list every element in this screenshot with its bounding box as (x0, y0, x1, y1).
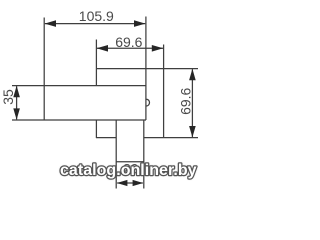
arrow left of 69.6 top (97, 45, 108, 52)
wall plate square: bottom edge left segment (96, 137, 116, 139)
arm: right edge + extension line above (145, 17, 147, 121)
arrow right of 69.6 top (152, 45, 163, 52)
arm: bottom edge + left extension line (12, 119, 146, 121)
knob bump on arm right edge (146, 99, 149, 106)
dimension line 69.6 right (191, 69, 193, 137)
spout: bottom edge (116, 161, 144, 163)
arrow down of 69.6 right (189, 126, 196, 137)
arrow left of 105.9 (45, 20, 56, 27)
dimension line 69.6 top (97, 47, 163, 49)
arrow right of 29 bottom (133, 180, 144, 186)
arm: top edge + left extension line (12, 85, 146, 87)
watermark catalog.onliner.by (60, 162, 197, 179)
svg-text:105.9: 105.9 (79, 8, 114, 24)
arrow up of 69.6 right (189, 69, 196, 80)
wall plate square: right edge + extension line above (163, 45, 165, 139)
spout: right edge + extension line below (143, 120, 145, 189)
arrow right of 105.9 (134, 20, 145, 27)
dimension line 105.9 (45, 23, 146, 25)
arrow left of 29 bottom (117, 180, 128, 186)
arm: left edge + extension line above (43, 18, 45, 121)
spout: left edge + extension line below (115, 120, 117, 189)
wall plate square: top edge + right extension line (96, 68, 198, 70)
arrow up of 35 left (13, 86, 20, 97)
svg-text:35: 35 (0, 89, 16, 105)
dimension line 35 left (16, 86, 18, 119)
arrow down of 35 left (13, 108, 20, 119)
svg-text:69.6: 69.6 (177, 87, 193, 114)
dimension line 29 bottom (117, 182, 143, 184)
wall plate square: left edge lower segment (95, 120, 97, 138)
wall plate square: left edge upper + extension line above (95, 40, 97, 86)
wall plate square: bottom edge right segment + right extension line (144, 137, 198, 139)
svg-text:69.6: 69.6 (115, 34, 142, 50)
svg-text:catalog.onliner.by: catalog.onliner.by (60, 162, 197, 179)
